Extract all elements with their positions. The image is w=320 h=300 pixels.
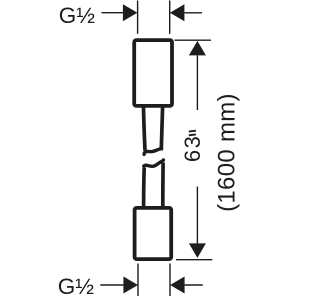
hose upper segment left edge (143, 105, 145, 151)
extension line top-right (169, 1, 171, 34)
dimension leader line top-left (102, 12, 125, 14)
top fitting (hose nut) (134, 40, 172, 106)
vertical dimension line upper segment (196, 55, 198, 110)
label inch double-prime tick 2 (189, 133, 196, 136)
arrowhead up (vertical dimension) (189, 41, 206, 56)
extension line top-left (137, 1, 139, 34)
arrowhead bottom-left (123, 277, 138, 294)
extension line bottom-right (169, 264, 171, 297)
dimension leader line top-right (184, 12, 202, 14)
svg-text:G½: G½ (59, 3, 96, 28)
vertical dimension line lower segment (196, 187, 198, 244)
extension line top of vertical dimension (175, 39, 212, 41)
dimension leader line bottom-left (100, 284, 124, 286)
hose upper segment break edge (144, 149, 162, 155)
arrowhead top-left (123, 4, 137, 21)
dimension leader line bottom-right (185, 284, 203, 286)
svg-text:G½: G½ (58, 274, 95, 299)
hose upper segment right edge (161, 105, 162, 149)
hose lower segment break edge (144, 160, 164, 166)
svg-text:63: 63 (180, 135, 205, 162)
extension line bottom of vertical dimension (176, 259, 212, 261)
hose lower segment right edge (161, 163, 165, 210)
extension line bottom-left (137, 264, 139, 297)
arrowhead down (vertical dimension) (189, 243, 206, 258)
bottom fitting (hose nut) (135, 208, 172, 259)
label inch double-prime tick 1 (189, 130, 196, 133)
hose lower segment left edge (142, 168, 146, 210)
arrowhead top-right (170, 4, 185, 21)
svg-text:(1600 mm): (1600 mm) (214, 93, 241, 212)
arrowhead bottom-right (170, 277, 185, 294)
